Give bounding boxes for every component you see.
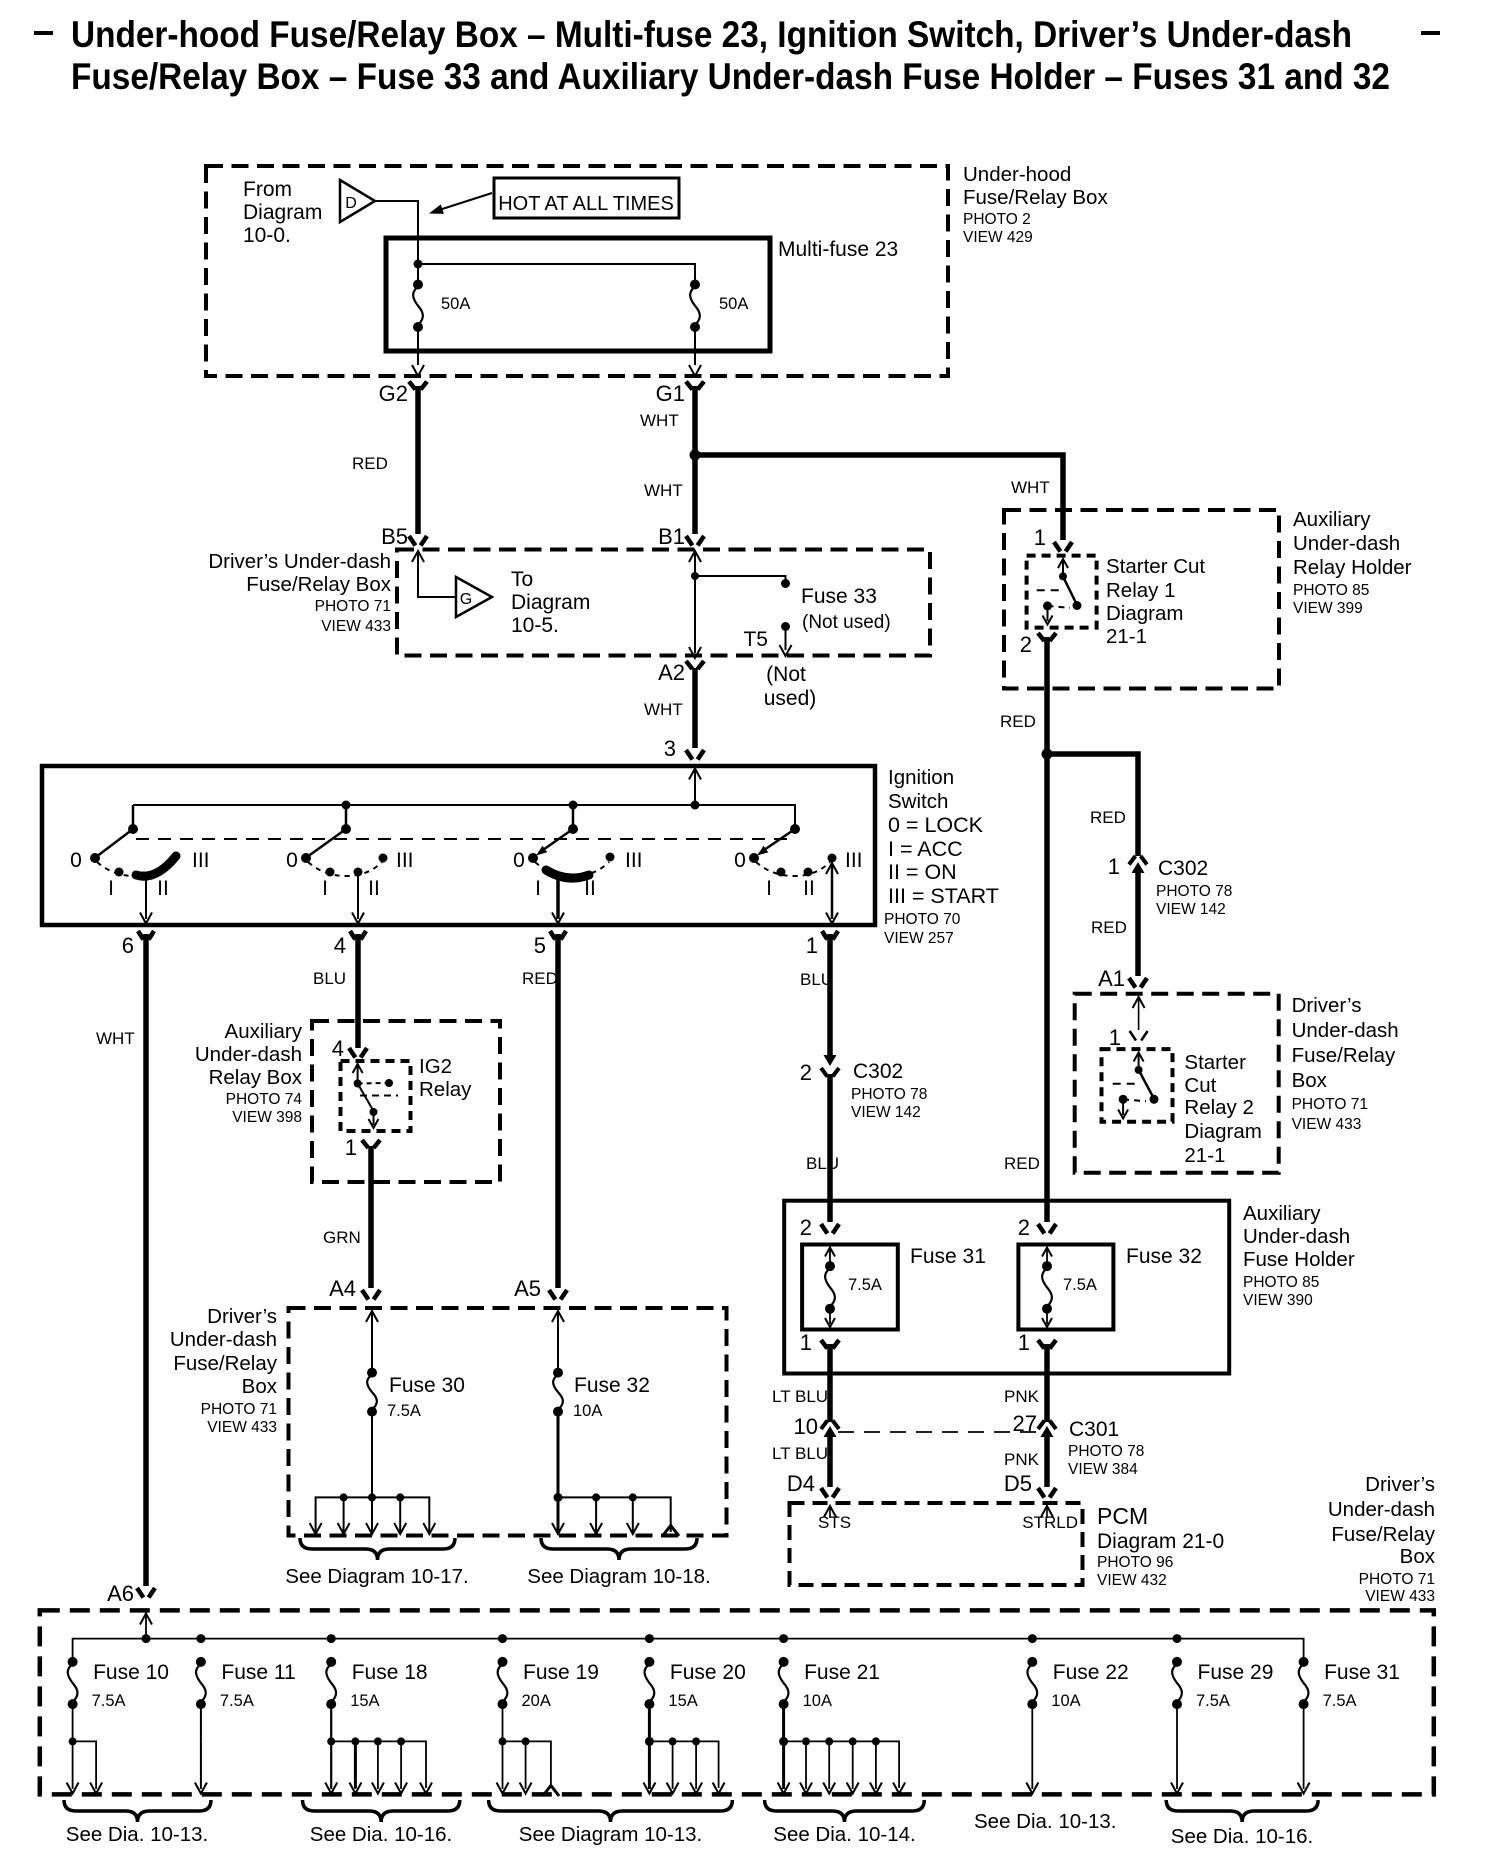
wire G2 to B5 (RED) bbox=[415, 386, 421, 534]
brace see diagram 10-13 (fuses 19/20) bbox=[489, 1800, 733, 1822]
svg-text:PHOTO 71: PHOTO 71 bbox=[1292, 1096, 1368, 1113]
fuse 32 box bbox=[1018, 1245, 1113, 1330]
ignition switch pole bbox=[132, 805, 135, 829]
svg-text:B1: B1 bbox=[658, 524, 685, 549]
fuse 32 (driver's box) bbox=[552, 1311, 564, 1322]
B5 internal arrow + wire to triangle G bbox=[412, 551, 424, 562]
PCM internal arrows bbox=[824, 1506, 836, 1517]
brace see dia 10-16 (fuse 18) bbox=[303, 1800, 460, 1822]
svg-text:Auxiliary: Auxiliary bbox=[225, 1020, 303, 1043]
svg-text:See Dia. 10-13.: See Dia. 10-13. bbox=[66, 1823, 208, 1846]
wire C301 to D4 (LT BLU) bbox=[827, 1434, 833, 1487]
fuse 32 element bbox=[1042, 1248, 1052, 1257]
svg-text:III = START: III = START bbox=[888, 884, 999, 908]
svg-text:7.5A: 7.5A bbox=[1063, 1276, 1097, 1294]
svg-text:Relay: Relay bbox=[419, 1078, 472, 1101]
connector C302 pin 2 bbox=[824, 1055, 837, 1066]
svg-text:Under-dash: Under-dash bbox=[170, 1328, 277, 1351]
svg-text:PNK: PNK bbox=[1004, 1450, 1040, 1469]
svg-text:IG2: IG2 bbox=[419, 1055, 452, 1078]
svg-text:A5: A5 bbox=[514, 1276, 541, 1301]
svg-text:Fuse 19: Fuse 19 bbox=[523, 1661, 599, 1684]
svg-text:VIEW 390: VIEW 390 bbox=[1243, 1292, 1313, 1309]
svg-text:10A: 10A bbox=[1051, 1692, 1080, 1710]
svg-text:15A: 15A bbox=[668, 1692, 697, 1710]
svg-text:Fuse 22: Fuse 22 bbox=[1053, 1661, 1129, 1684]
svg-text:RED: RED bbox=[1004, 1154, 1040, 1173]
svg-text:VIEW 398: VIEW 398 bbox=[232, 1109, 302, 1126]
svg-text:Under-dash: Under-dash bbox=[1328, 1498, 1435, 1521]
svg-text:PHOTO 78: PHOTO 78 bbox=[1068, 1443, 1144, 1460]
svg-text:Ignition: Ignition bbox=[888, 766, 954, 789]
svg-text:Cut: Cut bbox=[1184, 1074, 1216, 1097]
svg-text:G1: G1 bbox=[656, 381, 685, 406]
svg-text:Fuse 33: Fuse 33 bbox=[801, 585, 877, 608]
connector C302 pin 1 bbox=[1129, 856, 1135, 865]
svg-text:1: 1 bbox=[1018, 1330, 1030, 1355]
ignition switch pole bbox=[572, 805, 575, 829]
svg-text:7.5A: 7.5A bbox=[1323, 1692, 1357, 1710]
svg-text:Diagram 21-0: Diagram 21-0 bbox=[1097, 1530, 1224, 1553]
wire across to right fuse bbox=[418, 264, 695, 284]
svg-text:See Dia. 10-13.: See Dia. 10-13. bbox=[974, 1810, 1116, 1833]
driver's under-dash fuse/relay box right (dashed) bbox=[1075, 994, 1279, 1173]
wire fuse32 to C301 (PNK) bbox=[1044, 1344, 1050, 1422]
svg-text:Box: Box bbox=[242, 1375, 278, 1398]
fuse 33 bottom terminal / T5 bbox=[781, 622, 790, 631]
svg-text:To: To bbox=[511, 568, 533, 591]
svg-text:VIEW 433: VIEW 433 bbox=[207, 1419, 277, 1436]
svg-text:Fuse 21: Fuse 21 bbox=[804, 1661, 880, 1684]
svg-text:WHT: WHT bbox=[96, 1029, 135, 1048]
svg-text:VIEW 433: VIEW 433 bbox=[1365, 1588, 1435, 1605]
fuse 21 bbox=[779, 1657, 789, 1667]
svg-text:Starter Cut: Starter Cut bbox=[1106, 555, 1205, 578]
svg-text:B5: B5 bbox=[381, 524, 408, 549]
IG2 relay box (dashed) bbox=[341, 1061, 411, 1131]
svg-text:PHOTO 85: PHOTO 85 bbox=[1293, 582, 1369, 599]
svg-text:1: 1 bbox=[1108, 854, 1120, 879]
svg-text:I: I bbox=[322, 877, 328, 900]
svg-text:Driver’s: Driver’s bbox=[207, 1305, 277, 1328]
A1 internal wire bbox=[1133, 997, 1145, 1008]
svg-text:20A: 20A bbox=[522, 1692, 551, 1710]
svg-text:2: 2 bbox=[800, 1060, 812, 1085]
svg-text:PHOTO 74: PHOTO 74 bbox=[226, 1091, 303, 1108]
fuse 18 bbox=[326, 1657, 336, 1667]
svg-text:D: D bbox=[345, 195, 357, 212]
WHT branch wire to starter cut relay 1 bbox=[695, 455, 1063, 540]
svg-text:PHOTO 2: PHOTO 2 bbox=[963, 211, 1031, 228]
svg-text:A4: A4 bbox=[329, 1276, 356, 1301]
svg-text:RED: RED bbox=[1091, 918, 1127, 937]
svg-text:Fuse 20: Fuse 20 bbox=[670, 1661, 746, 1684]
svg-text:LT BLU: LT BLU bbox=[772, 1387, 828, 1406]
starter cut relay 1 box (dashed) bbox=[1027, 556, 1097, 628]
fuse 32 distribution bbox=[558, 1497, 671, 1532]
wire fuse31 to C301 (LT BLU) bbox=[827, 1344, 833, 1422]
ignition switch pole bbox=[345, 805, 348, 829]
svg-text:T5: T5 bbox=[743, 628, 768, 651]
svg-text:1: 1 bbox=[1109, 1025, 1121, 1050]
svg-text:WHT: WHT bbox=[640, 411, 679, 430]
fuse 30 distribution bbox=[316, 1497, 430, 1532]
svg-text:4: 4 bbox=[334, 933, 346, 958]
svg-text:III: III bbox=[845, 849, 863, 872]
svg-text:Auxiliary: Auxiliary bbox=[1243, 1202, 1321, 1225]
svg-text:Diagram: Diagram bbox=[243, 201, 322, 224]
svg-text:21-1: 21-1 bbox=[1184, 1144, 1225, 1167]
node switch pole 2 stub junction bbox=[342, 801, 351, 810]
svg-text:III: III bbox=[396, 849, 414, 872]
svg-text:GRN: GRN bbox=[323, 1228, 361, 1247]
arrow from HOT box to wire bbox=[436, 193, 492, 211]
svg-text:WHT: WHT bbox=[644, 481, 683, 500]
svg-text:VIEW 142: VIEW 142 bbox=[851, 1104, 921, 1121]
svg-text:PHOTO 71: PHOTO 71 bbox=[201, 1401, 277, 1418]
svg-text:Relay 1: Relay 1 bbox=[1106, 579, 1176, 602]
RED branch wire to C302 pin 1 bbox=[1047, 754, 1138, 856]
svg-text:VIEW 433: VIEW 433 bbox=[321, 618, 391, 635]
connector A2 bbox=[689, 647, 701, 658]
driver's under-dash fuse/relay box bottom-left (dashed) bbox=[289, 1308, 727, 1536]
svg-text:C302: C302 bbox=[853, 1060, 903, 1083]
svg-text:(Not: (Not bbox=[766, 663, 806, 686]
svg-text:1: 1 bbox=[806, 933, 818, 958]
svg-text:Fuse 31: Fuse 31 bbox=[1324, 1661, 1400, 1684]
wire pin6 to A6 (WHT) bbox=[143, 934, 149, 1586]
svg-text:4: 4 bbox=[332, 1036, 344, 1061]
pin 3 internal arrow to bus bbox=[689, 769, 701, 780]
svg-text:See Dia. 10-16.: See Dia. 10-16. bbox=[1171, 1825, 1313, 1848]
right fuse output wire + arrow at box edge bbox=[694, 327, 696, 365]
svg-text:1: 1 bbox=[1034, 525, 1046, 550]
svg-text:Relay Holder: Relay Holder bbox=[1293, 556, 1412, 579]
fuse 31 box bbox=[802, 1245, 898, 1330]
svg-text:2: 2 bbox=[1018, 1215, 1030, 1240]
svg-text:C301: C301 bbox=[1069, 1418, 1119, 1441]
svg-text:10-5.: 10-5. bbox=[511, 614, 559, 637]
svg-text:7.5A: 7.5A bbox=[848, 1276, 882, 1294]
wire G1 to B1 (WHT) bbox=[692, 386, 698, 534]
svg-text:LT BLU: LT BLU bbox=[772, 1444, 828, 1463]
A6 internal arrow bbox=[140, 1614, 152, 1625]
svg-text:Under-hood Fuse/Relay Box – Mu: Under-hood Fuse/Relay Box – Multi-fuse 2… bbox=[71, 14, 1352, 55]
svg-text:Switch: Switch bbox=[888, 790, 948, 813]
svg-text:A1: A1 bbox=[1098, 966, 1125, 991]
svg-text:G: G bbox=[460, 591, 472, 608]
svg-text:A6: A6 bbox=[107, 1581, 134, 1606]
svg-text:Under-dash: Under-dash bbox=[1293, 532, 1400, 555]
svg-text:Under-dash: Under-dash bbox=[1292, 1019, 1399, 1042]
svg-text:PHOTO 85: PHOTO 85 bbox=[1243, 1274, 1319, 1291]
ignition internal bus bbox=[133, 804, 795, 806]
svg-text:Relay Box: Relay Box bbox=[209, 1066, 303, 1089]
fuse 11 bbox=[196, 1657, 206, 1667]
brace see dia 10-13 (fuses 10/11) bbox=[64, 1800, 211, 1822]
bottom bus junction nodes bbox=[142, 1634, 151, 1643]
svg-text:See Dia. 10-16.: See Dia. 10-16. bbox=[310, 1823, 452, 1846]
fuse 21 distribution bbox=[779, 1737, 788, 1746]
wire pin5 to A5 (RED) bbox=[555, 934, 561, 1288]
svg-text:7.5A: 7.5A bbox=[220, 1692, 254, 1710]
auxiliary under-dash relay holder (dashed) bbox=[1004, 510, 1279, 689]
svg-text:STRLD: STRLD bbox=[1022, 1513, 1078, 1532]
svg-text:VIEW 429: VIEW 429 bbox=[963, 229, 1033, 246]
svg-text:See Diagram 10-17.: See Diagram 10-17. bbox=[285, 1565, 468, 1588]
svg-text:2: 2 bbox=[1020, 632, 1032, 657]
wire from triangle to multi-fuse bbox=[375, 201, 418, 238]
svg-text:7.5A: 7.5A bbox=[1196, 1692, 1230, 1710]
svg-text:II: II bbox=[157, 877, 169, 900]
driver's under-dash fuse/relay box (dashed) bbox=[397, 550, 930, 656]
junction node G1 branch bbox=[690, 450, 701, 461]
svg-text:D5: D5 bbox=[1004, 1471, 1032, 1496]
svg-text:WHT: WHT bbox=[644, 700, 683, 719]
fuse 50A right bbox=[690, 280, 700, 290]
svg-text:I = ACC: I = ACC bbox=[888, 837, 963, 861]
svg-text:II: II bbox=[368, 877, 380, 900]
svg-text:From: From bbox=[243, 178, 292, 201]
svg-text:VIEW 433: VIEW 433 bbox=[1292, 1116, 1362, 1133]
svg-text:Fuse/Relay: Fuse/Relay bbox=[173, 1352, 277, 1375]
svg-text:Fuse/Relay: Fuse/Relay bbox=[1331, 1523, 1435, 1546]
junction node RED branch bbox=[1042, 749, 1053, 760]
fuse 33 top terminal bbox=[781, 579, 790, 588]
svg-text:VIEW 142: VIEW 142 bbox=[1156, 901, 1226, 918]
wire IG2 to A4 (GRN) bbox=[368, 1146, 374, 1288]
svg-text:Fuse 29: Fuse 29 bbox=[1198, 1661, 1274, 1684]
svg-text:Fuse/Relay Box: Fuse/Relay Box bbox=[246, 573, 391, 596]
wire relay1 to fuse32 (RED) bbox=[1044, 637, 1050, 1222]
svg-text:PHOTO 96: PHOTO 96 bbox=[1097, 1554, 1173, 1571]
svg-text:RED: RED bbox=[1090, 808, 1126, 827]
C301 dashed link line bbox=[838, 1431, 1038, 1433]
fuse 10 bbox=[68, 1657, 78, 1667]
svg-text:1: 1 bbox=[800, 1330, 812, 1355]
svg-text:Fuse 30: Fuse 30 bbox=[389, 1374, 465, 1397]
svg-text:10A: 10A bbox=[803, 1692, 832, 1710]
svg-text:0: 0 bbox=[734, 849, 746, 872]
svg-text:Driver’s: Driver’s bbox=[1292, 994, 1362, 1017]
svg-text:10-0.: 10-0. bbox=[243, 224, 291, 247]
auxiliary under-dash fuse holder box bbox=[784, 1201, 1229, 1374]
svg-text:G2: G2 bbox=[379, 381, 408, 406]
fuse 22 bbox=[1027, 1657, 1037, 1667]
connector C301 pin 10 bbox=[821, 1421, 827, 1430]
B1 internal wire down to A2 bbox=[689, 551, 701, 562]
svg-text:15A: 15A bbox=[350, 1692, 379, 1710]
wire C302 to fuse31 (BLU) bbox=[827, 1074, 833, 1222]
brace see diagram 10-18 bbox=[541, 1538, 697, 1560]
svg-text:Under-dash: Under-dash bbox=[1243, 1225, 1350, 1248]
wire to fuse 33 bbox=[695, 576, 786, 580]
ignition switch box bbox=[42, 766, 875, 925]
svg-text:I: I bbox=[535, 877, 541, 900]
svg-text:0: 0 bbox=[513, 849, 525, 872]
svg-text:Under-dash: Under-dash bbox=[195, 1043, 302, 1066]
wire A2 to pin 3 (WHT) bbox=[692, 668, 698, 748]
relay 1 internals bbox=[1058, 559, 1068, 568]
left fuse output wire + arrow at box edge bbox=[417, 327, 419, 365]
fuse 20 distribution bbox=[645, 1737, 654, 1746]
fuse 31 element bbox=[825, 1248, 835, 1257]
node switch pole 3 stub junction bbox=[569, 801, 578, 810]
wire C302 to A1 (RED) bbox=[1135, 868, 1141, 976]
svg-text:50A: 50A bbox=[441, 295, 470, 313]
svg-text:50A: 50A bbox=[719, 295, 748, 313]
svg-text:Diagram: Diagram bbox=[511, 591, 590, 614]
bottom bus wire bbox=[73, 1639, 1304, 1662]
fuse 19 bbox=[498, 1657, 508, 1667]
svg-text:Driver’s Under-dash: Driver’s Under-dash bbox=[208, 550, 391, 573]
fuse 30 bbox=[366, 1311, 378, 1322]
svg-text:3: 3 bbox=[664, 736, 676, 761]
svg-text:I: I bbox=[108, 877, 114, 900]
svg-text:STS: STS bbox=[818, 1513, 851, 1532]
relay 2 internals bbox=[1134, 1053, 1144, 1062]
svg-text:Fuse/Relay Box: Fuse/Relay Box bbox=[963, 186, 1108, 209]
svg-text:PCM: PCM bbox=[1097, 1503, 1148, 1529]
svg-text:Diagram: Diagram bbox=[1106, 602, 1183, 625]
svg-text:7.5A: 7.5A bbox=[387, 1402, 421, 1420]
brace see dia 10-16 (fuses 29/31) bbox=[1166, 1800, 1318, 1822]
fuse 20 bbox=[644, 1657, 654, 1667]
svg-text:II: II bbox=[584, 877, 596, 900]
junction node B1 internal bbox=[691, 572, 699, 580]
triangle G (to diagram 10-5) bbox=[456, 577, 492, 617]
svg-text:21-1: 21-1 bbox=[1106, 625, 1147, 648]
svg-text:10: 10 bbox=[794, 1414, 818, 1439]
svg-text:0 = LOCK: 0 = LOCK bbox=[888, 813, 984, 837]
svg-text:BLU: BLU bbox=[806, 1154, 839, 1173]
fuse 18 distribution bbox=[327, 1737, 335, 1745]
svg-text:PHOTO 78: PHOTO 78 bbox=[1156, 883, 1232, 900]
svg-text:BLU: BLU bbox=[313, 969, 346, 988]
brace see diagram 10-17 bbox=[300, 1538, 455, 1560]
title dash right bbox=[1421, 31, 1440, 35]
junction node multi-fuse top bbox=[414, 260, 423, 269]
ignition internal dashed guide line bbox=[136, 838, 790, 840]
svg-text:VIEW 384: VIEW 384 bbox=[1068, 1461, 1138, 1478]
auxiliary under-dash relay box (dashed) bbox=[312, 1021, 500, 1182]
svg-text:Fuse 32: Fuse 32 bbox=[574, 1374, 650, 1397]
fuse 31 bbox=[1299, 1657, 1309, 1667]
svg-text:WHT: WHT bbox=[1011, 478, 1050, 497]
svg-text:III: III bbox=[625, 849, 643, 872]
svg-text:RED: RED bbox=[1000, 712, 1036, 731]
svg-text:Multi-fuse 23: Multi-fuse 23 bbox=[778, 238, 898, 261]
multi-fuse 23 box bbox=[386, 238, 770, 351]
node pin3-bus junction bbox=[691, 801, 700, 810]
svg-text:Fuse 11: Fuse 11 bbox=[221, 1661, 295, 1684]
svg-text:PHOTO 78: PHOTO 78 bbox=[851, 1086, 927, 1103]
svg-text:RED: RED bbox=[352, 454, 388, 473]
IG2 relay internals bbox=[353, 1064, 363, 1073]
svg-text:(Not used): (Not used) bbox=[802, 612, 891, 633]
svg-text:D4: D4 bbox=[787, 1471, 815, 1496]
bottom driver's under-dash fuse/relay box (dashed) bbox=[40, 1610, 1434, 1794]
fuse 19 distribution bbox=[499, 1737, 507, 1745]
svg-text:2: 2 bbox=[800, 1215, 812, 1240]
svg-text:A2: A2 bbox=[658, 660, 685, 685]
svg-text:0: 0 bbox=[70, 849, 82, 872]
ignition switch pole 4 bbox=[695, 805, 795, 829]
wire into left fuse bbox=[417, 238, 419, 284]
brace see dia 10-14 (fuse 21) bbox=[765, 1800, 925, 1822]
HOT AT ALL TIMES box bbox=[494, 178, 679, 218]
svg-text:III: III bbox=[192, 849, 210, 872]
svg-text:See Diagram 10-18.: See Diagram 10-18. bbox=[527, 1565, 710, 1588]
svg-text:VIEW 432: VIEW 432 bbox=[1097, 1572, 1167, 1589]
svg-text:5: 5 bbox=[534, 933, 546, 958]
wire pin4 to IG2 relay (BLU) bbox=[355, 934, 361, 1048]
svg-text:Fuse/Relay: Fuse/Relay bbox=[1292, 1044, 1396, 1067]
svg-text:PHOTO 71: PHOTO 71 bbox=[315, 598, 391, 615]
svg-text:Fuse 10: Fuse 10 bbox=[93, 1661, 169, 1684]
PCM box (dashed) bbox=[790, 1503, 1083, 1585]
svg-text:0: 0 bbox=[286, 849, 298, 872]
svg-text:6: 6 bbox=[122, 933, 134, 958]
svg-text:See Dia. 10-14.: See Dia. 10-14. bbox=[773, 1823, 915, 1846]
svg-text:Fuse Holder: Fuse Holder bbox=[1243, 1248, 1355, 1271]
svg-text:Diagram: Diagram bbox=[1184, 1120, 1261, 1143]
title dash left bbox=[34, 31, 53, 35]
svg-text:II = ON: II = ON bbox=[888, 860, 957, 884]
svg-text:Fuse 32: Fuse 32 bbox=[1126, 1245, 1202, 1268]
svg-text:Auxiliary: Auxiliary bbox=[1293, 508, 1371, 531]
svg-text:7.5A: 7.5A bbox=[92, 1692, 126, 1710]
svg-text:1: 1 bbox=[345, 1135, 357, 1160]
pole 4 III wire double arrow bbox=[831, 864, 834, 919]
fuse 29 bbox=[1172, 1657, 1182, 1667]
under-hood fuse/relay box (dashed) bbox=[206, 166, 948, 376]
starter cut relay 2 box (dashed) bbox=[1102, 1049, 1173, 1122]
svg-text:PNK: PNK bbox=[1004, 1387, 1040, 1406]
wire C301 to D5 (PNK) bbox=[1044, 1434, 1050, 1487]
svg-text:Box: Box bbox=[1400, 1545, 1436, 1568]
connector C301 pin 27 bbox=[1038, 1421, 1044, 1430]
svg-text:VIEW 399: VIEW 399 bbox=[1293, 600, 1363, 617]
svg-text:Starter: Starter bbox=[1184, 1051, 1246, 1074]
fuse 50A left bbox=[413, 280, 423, 290]
svg-text:BLU: BLU bbox=[800, 970, 833, 989]
svg-text:Fuse/Relay Box – Fuse 33 and A: Fuse/Relay Box – Fuse 33 and Auxiliary U… bbox=[71, 56, 1390, 97]
svg-text:27: 27 bbox=[1013, 1411, 1037, 1436]
svg-text:PHOTO 70: PHOTO 70 bbox=[884, 911, 961, 928]
svg-text:used): used) bbox=[764, 687, 817, 710]
svg-text:RED: RED bbox=[522, 969, 558, 988]
svg-text:Relay 2: Relay 2 bbox=[1184, 1096, 1254, 1119]
svg-text:Under-hood: Under-hood bbox=[963, 163, 1071, 186]
svg-text:Fuse 31: Fuse 31 bbox=[910, 1245, 986, 1268]
svg-text:C302: C302 bbox=[1158, 857, 1208, 880]
fuse 10 distribution bbox=[69, 1737, 77, 1745]
svg-text:I: I bbox=[766, 877, 772, 900]
svg-text:Box: Box bbox=[1292, 1069, 1328, 1092]
wire pin1 to C302 (BLU) bbox=[827, 934, 833, 1060]
svg-text:Fuse 18: Fuse 18 bbox=[352, 1661, 428, 1684]
svg-text:PHOTO 71: PHOTO 71 bbox=[1359, 1571, 1435, 1588]
svg-text:II: II bbox=[803, 877, 815, 900]
svg-text:Driver’s: Driver’s bbox=[1365, 1473, 1435, 1496]
svg-text:10A: 10A bbox=[573, 1402, 602, 1420]
svg-text:See Diagram 10-13.: See Diagram 10-13. bbox=[519, 1823, 702, 1846]
svg-text:HOT AT ALL TIMES: HOT AT ALL TIMES bbox=[498, 193, 674, 215]
svg-text:VIEW 257: VIEW 257 bbox=[884, 930, 954, 947]
triangle D (from diagram 10-0) bbox=[340, 180, 375, 222]
